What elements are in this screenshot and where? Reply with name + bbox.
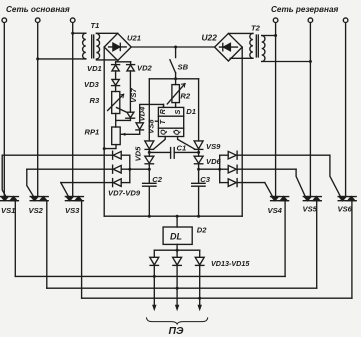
diodes VD7-VD9	[2, 151, 149, 197]
wire: reserve line 2 to VS5	[309, 23, 311, 197]
wire: reserve line 1 to VS4	[275, 23, 277, 197]
wire: U21 bottom split	[116, 61, 131, 62]
svg-text:VD4: VD4	[137, 106, 146, 122]
junction SB tap	[174, 46, 177, 49]
junction T1 primary bottom on line 2	[36, 57, 39, 60]
svg-text:C1: C1	[177, 143, 187, 152]
diode VD12	[220, 182, 229, 184]
wire: gate VS5	[296, 169, 305, 196]
thyristor VS1	[0, 197, 18, 277]
svg-text:Q: Q	[158, 129, 167, 135]
wire: R input from RP1 wiper via VD4	[140, 104, 164, 122]
potentiometer RP1	[85, 127, 121, 149]
junction arrow 1 / bus 1	[153, 275, 156, 278]
svg-text:D1: D1	[186, 107, 196, 116]
junction arrow 2 / bus 2	[176, 287, 179, 290]
thyristor VS2	[29, 197, 49, 289]
junction VD5/C2 node row2	[148, 168, 151, 171]
thyristor VS9	[194, 141, 221, 156]
svg-text:Сеть основная: Сеть основная	[6, 5, 70, 14]
svg-text:VD1: VD1	[87, 64, 102, 73]
diode VD1	[87, 62, 120, 80]
wire: collector right	[199, 168, 220, 170]
svg-text:T1: T1	[91, 21, 100, 30]
wire: output bus 2	[47, 287, 317, 289]
thyristor VS5	[303, 197, 322, 289]
diode VD8	[27, 168, 113, 170]
wire: bottom rail	[104, 215, 242, 217]
svg-text:VS7: VS7	[129, 88, 138, 103]
terminal main 1	[2, 18, 7, 23]
wire: U21 left vertex down to rail	[103, 47, 105, 216]
junction C2 / rail	[148, 215, 151, 218]
diode VD5	[133, 146, 154, 183]
diode VD15	[199, 250, 201, 257]
capacitor C2	[143, 175, 163, 216]
diode VD4	[121, 106, 146, 136]
thyristor VS7	[117, 88, 139, 121]
svg-text:R2: R2	[180, 91, 190, 100]
svg-text:VS8: VS8	[147, 119, 156, 134]
svg-text:VS2: VS2	[29, 206, 44, 215]
brace	[147, 318, 208, 324]
thyristor VS4	[268, 197, 289, 277]
svg-text:Сеть резервная: Сеть резервная	[271, 5, 339, 14]
svg-text:VD2: VD2	[137, 64, 153, 73]
wire: main line 3 to VS3	[72, 23, 74, 197]
diode VD13	[153, 250, 155, 257]
diode VD9	[61, 182, 113, 184]
diode VD2	[127, 62, 153, 112]
junction VD6/C3 node row2	[197, 168, 200, 171]
terminal main 2	[35, 18, 40, 23]
wire: gate VS3	[61, 183, 69, 197]
arrow out 1	[152, 305, 156, 311]
junction DL / rail	[176, 215, 179, 218]
switch SB	[170, 47, 189, 79]
svg-text:Q̄: Q̄	[172, 129, 181, 135]
svg-text:VD3: VD3	[84, 80, 100, 89]
thyristor VS8	[145, 119, 156, 157]
wire: R3/VS7/RP1 junction	[116, 119, 131, 121]
svg-text:DL: DL	[170, 232, 182, 242]
resistor R3 (variable)	[90, 92, 124, 128]
svg-text:U22: U22	[202, 33, 218, 43]
diodes VD10-VD12	[199, 151, 330, 186]
wire: DC bus U21 to U22	[131, 46, 214, 48]
arrow out 3	[198, 305, 202, 311]
node B: VS9/C1 junction	[197, 151, 200, 154]
bridge rectifier U22	[202, 33, 243, 62]
svg-text:R: R	[158, 108, 167, 114]
logic block DL (D2)	[154, 216, 207, 252]
svg-text:VS3: VS3	[65, 206, 80, 215]
wire: gate VS4	[265, 183, 273, 197]
wire: loop left to VS8	[148, 79, 150, 141]
svg-text:R3: R3	[90, 96, 100, 105]
wire: gate VS2	[27, 169, 34, 196]
diode VD6	[194, 156, 221, 183]
wire: gate VS1	[2, 155, 6, 196]
wire: U22 right vertex down to rail	[241, 47, 243, 216]
svg-text:VS6: VS6	[338, 205, 353, 214]
svg-text:VS9: VS9	[206, 142, 221, 151]
svg-text:VD7-VD9: VD7-VD9	[108, 189, 141, 198]
svg-text:ПЭ: ПЭ	[169, 326, 184, 337]
junction arrow 3 / bus 3	[198, 297, 201, 300]
wire: loop right to VS9	[198, 79, 200, 141]
svg-text:RP1: RP1	[85, 128, 100, 137]
thyristor VS6	[338, 197, 357, 299]
diode VD7	[2, 154, 112, 156]
wire: output bus 1	[15, 275, 285, 277]
flip-flop D1	[154, 104, 196, 149]
capacitor C3	[192, 175, 211, 216]
diode VD10	[220, 154, 229, 156]
diodes VD13-VD15	[150, 250, 251, 305]
wire: gate VS6	[330, 155, 341, 196]
junction DL output header	[176, 249, 179, 252]
terminal reserve 3	[343, 18, 348, 23]
svg-text:VS5: VS5	[303, 205, 318, 214]
wire: collector left	[129, 155, 131, 182]
wire: control loop top	[149, 78, 198, 80]
diode VD3	[84, 79, 120, 91]
junction T2 primary top on reserve line 1	[274, 34, 277, 37]
wire: main line 2 to VS2	[37, 23, 39, 197]
junction T2 primary bottom on reserve line 2	[309, 60, 312, 63]
svg-text:VD13-VD15: VD13-VD15	[211, 259, 250, 268]
bridge rectifier U21	[104, 33, 141, 60]
diode VD11	[220, 168, 229, 170]
arrow out 2	[175, 305, 179, 311]
node A: VS8/C1 junction	[148, 151, 151, 154]
svg-text:D2: D2	[197, 226, 207, 235]
wire: reserve line 3 to VS6	[345, 23, 347, 197]
junction RP1 bottom on left drop	[103, 147, 106, 150]
junction VD7-VD9 collector	[128, 168, 131, 171]
resistor R2 (variable)	[167, 79, 191, 108]
svg-text:VS1: VS1	[1, 206, 15, 215]
junction T1 primary top on line 3	[71, 32, 74, 35]
thyristor VS3	[65, 197, 83, 299]
transformer T2	[228, 24, 310, 62]
terminal reserve 2	[308, 18, 313, 23]
svg-text:T2: T2	[251, 24, 261, 33]
svg-text:SB: SB	[178, 63, 189, 72]
terminal main 3	[70, 18, 75, 23]
junction VD10-VD12 collector	[218, 168, 221, 171]
svg-text:T: T	[158, 119, 167, 124]
wire: main line 1 to VS1	[3, 23, 5, 197]
svg-text:VS4: VS4	[268, 206, 283, 215]
svg-text:U21: U21	[127, 33, 141, 42]
junction loop top / SB	[174, 77, 177, 80]
wire: output bus 3	[82, 297, 352, 299]
junction C3 / rail	[197, 215, 200, 218]
svg-text:S: S	[173, 109, 182, 114]
svg-text:VD5: VD5	[133, 146, 142, 162]
terminal reserve 1	[273, 18, 278, 23]
diode VD14	[176, 250, 178, 257]
capacitor C1	[149, 143, 198, 158]
transformer T1	[38, 21, 118, 60]
